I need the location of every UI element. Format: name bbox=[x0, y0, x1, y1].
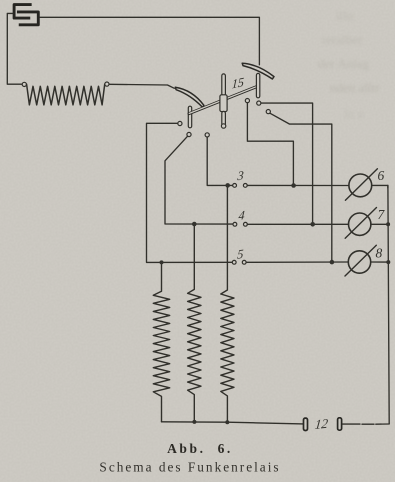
relay 15: right contact post bbox=[256, 73, 259, 97]
relay coil winding bbox=[27, 84, 105, 105]
junction node on line 5 right bbox=[330, 260, 335, 265]
contact terminal left-inner bbox=[205, 133, 209, 137]
switch contact pair 3 bbox=[233, 184, 248, 188]
resistor R2 bbox=[188, 224, 201, 422]
svg-text:12: 12 bbox=[314, 416, 329, 432]
junction node on line 4 right bbox=[310, 222, 315, 227]
junction node bottom bus at R3 bbox=[225, 420, 229, 424]
wire: spark gap 12 to right bus corner bbox=[343, 423, 390, 425]
switch contact pair 5 bbox=[232, 260, 246, 264]
relay 15: right contact spring (crescent) bbox=[242, 63, 274, 79]
svg-text:der Anlag: der Anlag bbox=[318, 56, 369, 71]
junction node bus at lamp 8 bbox=[386, 260, 390, 264]
terminal (coil right) bbox=[105, 82, 109, 86]
wire: bottom bus bbox=[162, 422, 304, 424]
svg-text:8: 8 bbox=[376, 246, 383, 261]
relay 15: armature beam bbox=[189, 86, 257, 113]
junction node bottom bus at R2 bbox=[192, 420, 196, 424]
wire: right-inner contact elbow down to node on line 3 bbox=[247, 103, 293, 186]
junction node on line 3 right bbox=[291, 183, 296, 188]
wire: lamp 7 to right bus bbox=[371, 223, 388, 225]
lamp 7 bbox=[345, 208, 376, 239]
svg-text:6: 6 bbox=[378, 168, 385, 183]
wire: coil right terminal to relay left spring bbox=[109, 84, 174, 88]
relay 15: left contact post bbox=[188, 106, 191, 128]
plug connector (interrupter key symbol) bbox=[14, 5, 38, 25]
relay 15: central lower rod with tip bulb bbox=[221, 111, 225, 128]
svg-text:3: 3 bbox=[236, 168, 244, 183]
wire: switch 4 to lamp 7 bbox=[247, 223, 348, 225]
resistor R1 bbox=[153, 265, 169, 422]
wire: plug right side along top to relay right spring bbox=[40, 17, 260, 65]
lamp 8 bbox=[345, 245, 376, 276]
wire: switch 5 to lamp 8 bbox=[246, 261, 348, 263]
switch contact pair 4 bbox=[233, 222, 247, 226]
wire: plug left side down to coil left terminal bbox=[7, 13, 22, 84]
contact terminal right-mid bbox=[257, 101, 261, 105]
wire: right-outer contact diagonal, across and down to node on line 5 bbox=[270, 113, 332, 262]
svg-text:15: 15 bbox=[231, 75, 244, 92]
contact terminal right-inner bbox=[245, 99, 249, 103]
wire: left-outer contact to left bus, down and across to switch 5 bbox=[147, 123, 233, 262]
svg-text:ln u: ln u bbox=[344, 106, 364, 121]
spark gap 12: left electrode bbox=[304, 418, 308, 430]
svg-text:reralher: reralher bbox=[322, 32, 363, 47]
terminal (coil left) bbox=[22, 82, 26, 86]
contact terminal left-mid bbox=[187, 132, 191, 136]
wire: right bus vertical bbox=[388, 185, 389, 423]
wire: switch 3 to lamp 6 bbox=[247, 184, 349, 186]
contact terminal right-outer bbox=[266, 110, 270, 114]
junction node on line 5 at resistor R1 bbox=[160, 260, 164, 264]
svg-text:Abb. 6.: Abb. 6. bbox=[167, 441, 233, 456]
svg-text:illu: illu bbox=[336, 8, 354, 23]
spark gap 12: right electrode bbox=[338, 418, 342, 430]
svg-text:nden alltr: nden alltr bbox=[330, 80, 380, 95]
contact terminal left-outer bbox=[178, 121, 182, 125]
junction node bus at lamp 7 bbox=[386, 222, 390, 226]
relay 15: central pivot block bbox=[220, 95, 227, 112]
wire: left-inner contact down to switch 3 line bbox=[207, 137, 232, 185]
wire: left-mid contact diagonally down to switch 4 line bbox=[165, 136, 233, 224]
svg-text:5: 5 bbox=[237, 247, 244, 262]
junction node on line 4 at resistor R2 bbox=[192, 222, 197, 227]
svg-text:Schema des Funkenrelais: Schema des Funkenrelais bbox=[99, 460, 280, 475]
wire: right-mid contact across and down to node on line 4 bbox=[261, 103, 313, 224]
resistor R3 bbox=[221, 187, 234, 422]
junction node on line 3 at resistor R3 bbox=[225, 183, 230, 188]
wire: lamp 6 to right bus corner bbox=[372, 185, 388, 188]
relay 15: central upper rod bbox=[222, 74, 226, 96]
lamp 6 bbox=[345, 169, 377, 200]
relay 15: left contact spring (crescent) bbox=[175, 87, 204, 107]
wire: lamp 8 to right bus bbox=[371, 261, 389, 263]
